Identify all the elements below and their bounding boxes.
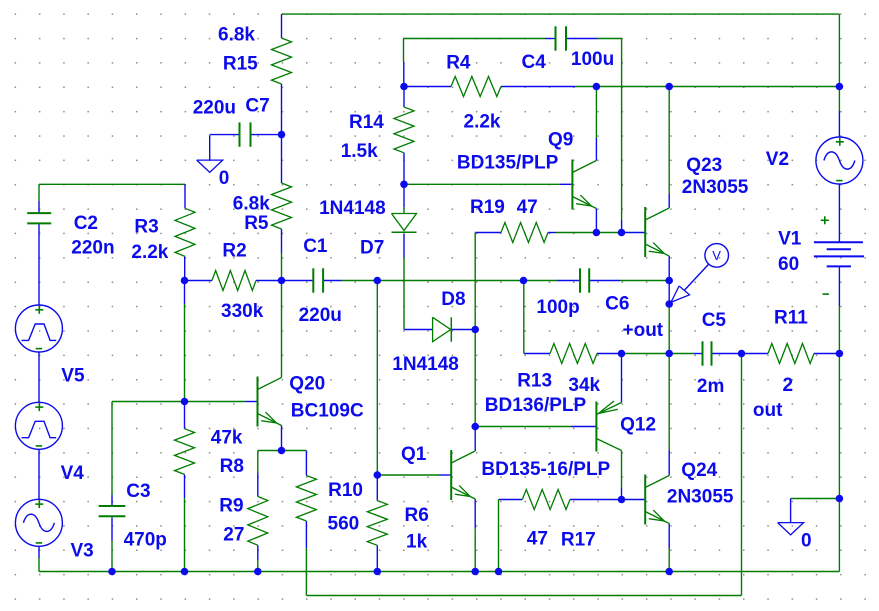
- node R11 right: [836, 350, 844, 358]
- wire: [38, 352, 40, 402]
- svg-text:220u: 220u: [299, 305, 342, 326]
- wire: [184, 498, 186, 572]
- wire: [281, 281, 283, 378]
- svg-text:2.2k: 2.2k: [131, 242, 168, 263]
- svg-text:0: 0: [219, 168, 230, 189]
- wire: [341, 280, 524, 282]
- wire: [621, 488, 623, 500]
- svg-text:2.2k: 2.2k: [464, 111, 501, 132]
- wire: [257, 473, 259, 497]
- wire: [376, 545, 378, 569]
- resistor R4: [451, 77, 501, 97]
- svg-text:C6: C6: [605, 293, 629, 314]
- wire: [38, 201, 40, 213]
- wire: [475, 232, 501, 234]
- svg-text:R5: R5: [244, 213, 269, 234]
- wire: [376, 475, 378, 501]
- resistor R15: [272, 38, 292, 84]
- svg-text:0: 0: [801, 531, 812, 552]
- wire: [474, 233, 476, 330]
- svg-text:R15: R15: [223, 54, 258, 75]
- wire: [404, 38, 546, 40]
- svg-text:R17: R17: [561, 530, 596, 551]
- wire: [838, 184, 840, 242]
- svg-text:BD135/PLP: BD135/PLP: [457, 153, 559, 174]
- svg-text:47: 47: [527, 528, 548, 549]
- wire: [694, 353, 703, 355]
- wire: [499, 499, 523, 501]
- svg-text:34k: 34k: [568, 375, 600, 396]
- wire: [668, 524, 670, 549]
- node C6 left: [520, 277, 528, 285]
- svg-text:D8: D8: [441, 289, 465, 310]
- wire: [281, 229, 283, 253]
- resistor R9: [248, 497, 268, 546]
- svg-text:6.8k: 6.8k: [218, 25, 255, 46]
- wire: [38, 449, 40, 499]
- node R14 bottom / D7: [400, 181, 408, 189]
- node rail R6: [374, 568, 382, 576]
- wire: [474, 499, 476, 528]
- node Q1 collector / Q12 base: [471, 423, 479, 431]
- wire: [620, 280, 669, 282]
- transistor Q9: [572, 160, 596, 210]
- wire: [451, 329, 475, 331]
- node Q23 collector: [665, 83, 673, 91]
- wire: [668, 354, 670, 451]
- wire: [184, 402, 186, 429]
- wire: [838, 266, 840, 306]
- node +out: [665, 350, 673, 358]
- wire: [742, 353, 769, 355]
- wire: [403, 153, 405, 185]
- wire: [257, 451, 259, 473]
- node V2 top: [836, 83, 844, 91]
- svg-text:47k: 47k: [211, 427, 243, 448]
- wire: [474, 427, 476, 452]
- node R3/R2: [181, 277, 189, 285]
- svg-text:1N4148: 1N4148: [392, 354, 459, 375]
- node rail Q1 emitter: [471, 568, 479, 576]
- wire: [621, 354, 623, 403]
- wire: [621, 451, 623, 488]
- resistor R5: [272, 183, 292, 229]
- wire: [595, 209, 597, 233]
- node Q1 base / R6: [374, 471, 382, 479]
- svg-text:BD136/PLP: BD136/PLP: [485, 395, 587, 416]
- capacitor C5: [703, 341, 712, 365]
- node Q23 emitter: [665, 277, 673, 285]
- wire: [39, 571, 839, 573]
- wire: [668, 549, 670, 572]
- transistor Q12: [596, 401, 621, 452]
- wire: [814, 353, 839, 355]
- wire: [377, 474, 439, 476]
- resistor R14: [394, 107, 414, 153]
- wire: [622, 353, 695, 355]
- wire: [184, 281, 186, 305]
- wire: [474, 528, 476, 571]
- wire: [501, 86, 575, 88]
- node Q9 emitter: [593, 229, 601, 237]
- node rail R8: [181, 568, 189, 576]
- node R15/C7/R5: [278, 131, 286, 139]
- node Q12 collector / R17 / Q24 base: [618, 496, 626, 504]
- wire: [557, 280, 580, 282]
- svg-text:220n: 220n: [71, 237, 114, 258]
- svg-text:100u: 100u: [571, 49, 614, 70]
- node rail R9: [254, 568, 262, 576]
- wire: [597, 353, 622, 355]
- wire: [210, 134, 240, 136]
- node C4 branch: [618, 229, 626, 237]
- svg-text:R4: R4: [446, 53, 471, 74]
- svg-text:1k: 1k: [406, 531, 428, 552]
- wire: [282, 280, 314, 282]
- wire: [570, 499, 622, 501]
- wire: [560, 183, 572, 185]
- svg-text:100p: 100p: [536, 297, 579, 318]
- svg-text:C4: C4: [522, 52, 547, 73]
- svg-text:R8: R8: [220, 456, 244, 477]
- wire: [403, 39, 405, 63]
- node R2/C1/R5/Q20: [278, 277, 286, 285]
- wire: [668, 450, 670, 476]
- wire: [622, 499, 645, 501]
- node C1 right: [374, 277, 382, 285]
- ground 0 (near C7): [197, 135, 223, 172]
- svg-text:Q23: Q23: [686, 155, 722, 176]
- wire: [498, 500, 500, 572]
- resistor R17: [522, 490, 570, 510]
- wire: [403, 208, 405, 214]
- voltage source V5: [15, 305, 62, 352]
- wire: [621, 220, 623, 233]
- svg-text:R9: R9: [219, 496, 243, 517]
- wire: [791, 498, 840, 500]
- svg-text:BC109C: BC109C: [291, 401, 364, 422]
- wire: [256, 280, 282, 282]
- svg-text:2m: 2m: [697, 376, 724, 397]
- wire: [475, 426, 571, 428]
- svg-text:27: 27: [223, 525, 244, 546]
- wire: [112, 401, 246, 403]
- svg-text:220u: 220u: [193, 98, 236, 119]
- diode D7: [392, 214, 417, 233]
- wire: [111, 541, 113, 572]
- node R13/Q12: [618, 350, 626, 358]
- wire: [258, 450, 307, 452]
- wire: [545, 38, 556, 40]
- wire: [597, 38, 622, 40]
- svg-text:6.8k: 6.8k: [233, 194, 270, 215]
- node R14 top: [400, 83, 408, 91]
- wire: [257, 545, 259, 560]
- wire: [595, 87, 597, 139]
- wire: [38, 558, 40, 572]
- svg-text:2N3055: 2N3055: [682, 177, 749, 198]
- wire: [622, 232, 646, 234]
- wire: [39, 183, 185, 185]
- wire: [38, 223, 40, 305]
- resistor R2: [212, 271, 256, 291]
- wire: [595, 138, 597, 161]
- wire: [281, 135, 283, 183]
- wire: [668, 281, 670, 305]
- wire: [838, 306, 840, 499]
- resistor R13: [550, 344, 597, 364]
- wire: [838, 111, 840, 137]
- wire: [668, 256, 670, 281]
- svg-text:BD135-16/PLP: BD135-16/PLP: [481, 459, 610, 480]
- svg-text:V: V: [712, 248, 721, 263]
- wire: [668, 87, 670, 195]
- wire: [403, 257, 405, 330]
- svg-text:V1: V1: [778, 229, 802, 250]
- wire: [668, 194, 670, 208]
- voltage probe marker: [671, 244, 729, 303]
- node Q20 base / R8: [181, 398, 189, 406]
- voltage source V1 (battery): [814, 216, 864, 294]
- wire: [741, 354, 743, 596]
- wire: [184, 256, 186, 280]
- svg-text:60: 60: [778, 254, 799, 275]
- wire: [439, 474, 451, 476]
- svg-text:C2: C2: [74, 213, 98, 234]
- wire: [403, 87, 405, 108]
- diode D8: [433, 317, 452, 341]
- capacitor C4: [556, 26, 567, 50]
- wire: [403, 62, 405, 87]
- capacitor C7: [240, 122, 251, 146]
- svg-text:C7: C7: [245, 96, 269, 117]
- resistor R3: [175, 208, 195, 256]
- capacitor C1: [313, 268, 323, 292]
- svg-text:1.5k: 1.5k: [341, 141, 378, 162]
- node rail R17: [495, 568, 503, 576]
- wire: [404, 329, 433, 331]
- svg-text:V3: V3: [71, 541, 94, 562]
- wire: [111, 518, 113, 542]
- svg-text:R6: R6: [405, 505, 429, 526]
- wire: [621, 39, 623, 221]
- svg-text:C1: C1: [303, 236, 328, 257]
- wire: [305, 451, 307, 476]
- svg-text:Q24: Q24: [681, 460, 717, 481]
- wire: [548, 232, 556, 234]
- wire: [306, 595, 741, 597]
- node rail C3: [108, 568, 116, 576]
- wire: [184, 184, 186, 208]
- wire: [403, 184, 405, 207]
- wire: [111, 402, 113, 496]
- svg-text:Q12: Q12: [620, 414, 656, 435]
- svg-text:560: 560: [328, 514, 360, 535]
- wire: [571, 426, 596, 428]
- wire: [556, 232, 622, 234]
- wire: [251, 134, 282, 136]
- svg-text:Q9: Q9: [548, 129, 573, 150]
- svg-text:R2: R2: [222, 241, 246, 262]
- wire: [524, 353, 550, 355]
- node probe node: [665, 300, 673, 308]
- wire: [281, 14, 283, 38]
- svg-text:V4: V4: [61, 463, 85, 484]
- node rail Q24 emitter: [665, 568, 673, 576]
- wire: [404, 86, 451, 88]
- svg-text:330k: 330k: [221, 301, 264, 322]
- svg-text:R14: R14: [349, 112, 384, 133]
- wire: [184, 474, 186, 498]
- wire: [403, 234, 405, 257]
- node ground branch: [836, 495, 844, 503]
- svg-text:2N3055: 2N3055: [667, 487, 734, 508]
- wire: [281, 426, 283, 451]
- svg-text:Q20: Q20: [289, 373, 325, 394]
- wire: [282, 13, 839, 15]
- capacitor C3: [99, 506, 126, 516]
- capacitor C2: [27, 213, 51, 223]
- wire: [589, 280, 620, 282]
- wire: [305, 521, 307, 548]
- wire: [404, 183, 560, 185]
- transistor Q24: [645, 475, 669, 525]
- node Q20 emitter: [278, 447, 286, 455]
- wire: [838, 14, 840, 86]
- svg-text:V2: V2: [766, 149, 789, 170]
- wire: [523, 281, 525, 354]
- voltage source V2: [816, 137, 863, 184]
- resistor R6: [367, 501, 387, 546]
- resistor R19: [501, 223, 548, 243]
- svg-text:R19: R19: [470, 197, 505, 218]
- wire: [524, 280, 558, 282]
- svg-text:+out: +out: [623, 320, 664, 341]
- svg-text:V5: V5: [61, 366, 85, 387]
- resistor R11: [768, 344, 814, 364]
- wire: [376, 281, 378, 476]
- voltage source V3: [15, 499, 62, 546]
- svg-text:C5: C5: [702, 310, 727, 331]
- svg-text:D7: D7: [360, 238, 384, 259]
- transistor Q1: [451, 450, 475, 500]
- wire: [281, 253, 283, 281]
- wire: [474, 330, 476, 427]
- wire: [305, 548, 307, 596]
- svg-text:2: 2: [783, 375, 794, 396]
- wire: [281, 84, 283, 135]
- wire: [575, 86, 839, 88]
- wire: [838, 499, 840, 572]
- wire: [712, 353, 742, 355]
- node D8 cathode: [471, 326, 479, 334]
- svg-text:R10: R10: [328, 480, 363, 501]
- node Q9 collector: [593, 83, 601, 91]
- wire: [38, 184, 40, 201]
- svg-text:C3: C3: [126, 481, 150, 502]
- svg-text:1N4148: 1N4148: [319, 198, 386, 219]
- node C5/R11 (out): [738, 350, 746, 358]
- wire: [184, 304, 186, 402]
- wire: [566, 38, 597, 40]
- wire: [185, 280, 213, 282]
- svg-text:47: 47: [517, 197, 538, 218]
- svg-text:470p: 470p: [124, 530, 167, 551]
- svg-text:Q1: Q1: [401, 444, 427, 465]
- wire: [838, 87, 840, 112]
- transistor Q23: [645, 207, 669, 257]
- resistor R8: [175, 429, 195, 475]
- wire: [323, 280, 341, 282]
- svg-text:out: out: [753, 400, 783, 421]
- ground 0 (right): [778, 499, 804, 535]
- svg-text:R13: R13: [517, 371, 552, 392]
- wire: [376, 569, 378, 572]
- voltage source V4: [15, 402, 62, 449]
- wire: [668, 304, 670, 354]
- svg-text:R11: R11: [774, 307, 808, 328]
- svg-text:R3: R3: [134, 217, 158, 238]
- capacitor C6: [580, 268, 589, 292]
- resistor R10: [296, 476, 316, 522]
- wire: [257, 560, 259, 572]
- wire: [111, 495, 113, 507]
- transistor Q20: [258, 377, 282, 427]
- wire: [38, 546, 40, 558]
- wire: [246, 401, 258, 403]
